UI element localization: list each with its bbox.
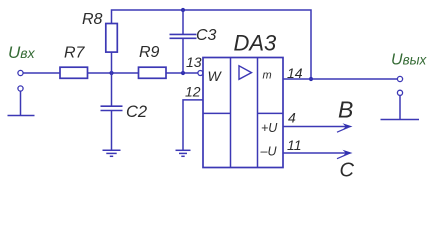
wire pin 14 to output	[283, 78, 397, 80]
wire R9 to pin 13	[166, 72, 198, 74]
wire pin 11 output C	[283, 152, 348, 154]
input terminal chassis stem	[20, 91, 22, 115]
svg-text:4: 4	[288, 110, 296, 126]
input terminal chassis bar	[8, 115, 35, 117]
DA3 left column divider	[230, 58, 232, 168]
wire R7 to R9	[88, 72, 139, 74]
junction node top rail / C3	[181, 8, 185, 12]
svg-text:DA3: DA3	[234, 31, 278, 56]
svg-text:B: B	[338, 97, 353, 123]
junction node top rail / pin14 wire	[309, 77, 313, 81]
junction node R9/C3/pin13	[181, 71, 185, 75]
output terminal chassis stem	[399, 96, 401, 120]
wire C3 top lead	[182, 10, 184, 34]
wire R8 top to feedback top rail and down to pin 14 net	[112, 10, 312, 79]
pin 13 inversion circle	[198, 71, 203, 76]
output terminal top contact	[397, 76, 402, 81]
svg-text:C2: C2	[126, 103, 147, 121]
svg-text:+U: +U	[261, 121, 278, 135]
DA3 right column divider	[257, 58, 259, 168]
svg-text:R7: R7	[64, 45, 86, 62]
svg-text:Uвx: Uвx	[8, 43, 36, 62]
svg-text:C: C	[340, 160, 355, 182]
capacitor C2	[101, 106, 123, 110]
output terminal chassis bar	[381, 119, 420, 121]
wire pin 12	[183, 100, 203, 150]
capacitor C3	[170, 34, 197, 38]
ground at pin 12	[176, 150, 191, 156]
svg-text:C3: C3	[196, 27, 217, 44]
ground under C2	[103, 150, 121, 156]
DA3 left column horizontal divider	[203, 112, 231, 114]
amplifier triangle symbol	[239, 66, 252, 80]
wire C2 top lead	[111, 73, 113, 106]
resistor R9	[139, 67, 167, 78]
svg-text:m: m	[263, 69, 272, 81]
svg-text:R9: R9	[139, 44, 160, 61]
svg-text:12: 12	[185, 84, 201, 100]
input terminal top contact	[18, 70, 23, 75]
op-amp U=DA3 body	[203, 58, 283, 168]
svg-text:W: W	[208, 68, 223, 84]
wire pin 4 output B	[283, 126, 348, 128]
arrow head C	[337, 150, 353, 159]
wire input to R7	[23, 72, 60, 74]
wire C2 bottom lead	[111, 111, 113, 151]
DA3 right column horizontal divider	[258, 112, 284, 114]
arrow head B	[337, 123, 353, 132]
wire C3 bottom lead	[182, 38, 184, 73]
wire R8 bottom lead	[111, 52, 113, 73]
resistor R7	[60, 67, 88, 78]
junction node R7/R8/C2	[109, 71, 113, 75]
svg-text:13: 13	[186, 54, 202, 70]
svg-text:Uвых: Uвых	[391, 52, 428, 69]
output terminal lower contact	[397, 90, 402, 95]
svg-text:R8: R8	[82, 11, 103, 28]
svg-text:–U: –U	[260, 145, 278, 159]
svg-text:11: 11	[287, 137, 302, 153]
resistor R8	[106, 24, 118, 53]
input terminal lower contact	[18, 86, 23, 91]
